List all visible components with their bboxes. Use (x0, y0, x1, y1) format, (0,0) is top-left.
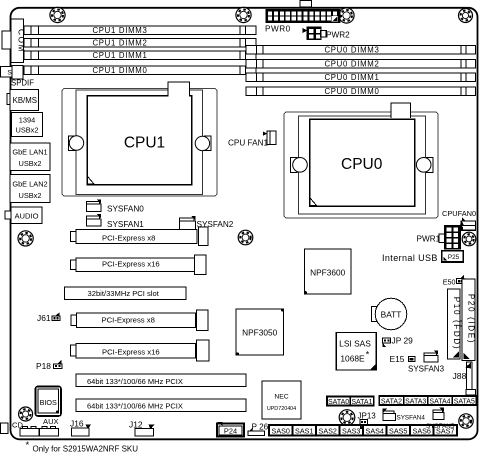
svg-text:USBx2: USBx2 (18, 191, 41, 200)
fan connector SYSFAN4 (383, 409, 396, 421)
header J16 (72, 424, 92, 436)
svg-text:Internal USB: Internal USB (382, 253, 438, 263)
svg-text:NPF3050: NPF3050 (242, 327, 277, 337)
COM port connector (2, 19, 26, 63)
svg-text:J61: J61 (37, 313, 51, 323)
PCI-Express x8 slot (top) (71, 227, 209, 246)
chip LSI SAS 1068E (336, 333, 376, 371)
svg-text:J88: J88 (453, 371, 467, 381)
SATA connectors SATA2-SATA5 (379, 396, 476, 405)
svg-text:E50: E50 (443, 277, 456, 286)
left edge tab near CD (1, 423, 9, 434)
power connector PWR2 (302, 27, 326, 39)
svg-text:AUDIO: AUDIO (14, 212, 38, 221)
fan connector SYSFAN2 (180, 216, 196, 230)
DIMM slot CPU0 DIMM1 (246, 73, 476, 82)
CPU socket CPU0 (284, 103, 438, 218)
fan connector SYSFAN1 (87, 214, 102, 226)
svg-text:CPU0 DIMM3: CPU0 DIMM3 (324, 46, 379, 55)
svg-text:PWR1: PWR1 (417, 235, 441, 244)
fan connector CPUFAN0 (458, 217, 475, 231)
chip NEC UPD720404 (262, 381, 301, 419)
svg-text:SATA4: SATA4 (429, 398, 450, 405)
svg-text:GbE LAN2: GbE LAN2 (12, 180, 47, 189)
DIMM slot CPU0 DIMM3 (246, 46, 476, 55)
connector P20 (IDE) (462, 279, 476, 361)
svg-text:S: S (7, 70, 12, 77)
svg-text:PCI-Express x8: PCI-Express x8 (102, 233, 155, 242)
svg-text:64bit 133*/100/66 MHz PCIX: 64bit 133*/100/66 MHz PCIX (87, 377, 183, 386)
svg-text:CPU0 DIMM2: CPU0 DIMM2 (324, 60, 379, 69)
svg-text:Only for S2915WA2NRF SKU: Only for S2915WA2NRF SKU (33, 445, 139, 454)
svg-text:*: * (26, 440, 30, 451)
svg-text:SYSFAN0: SYSFAN0 (107, 205, 144, 214)
32bit/33MHz PCI slot (65, 287, 187, 300)
mounting hole top-left (50, 7, 65, 22)
mounting hole top-right (459, 9, 473, 23)
svg-text:SPDIF: SPDIF (11, 79, 34, 88)
svg-text:P20 (IDE): P20 (IDE) (467, 294, 476, 344)
svg-text:NPF3600: NPF3600 (310, 267, 345, 277)
svg-text:1394: 1394 (19, 116, 35, 125)
DIMM slot CPU0 DIMM0 (246, 87, 476, 96)
DIMM slot CPU1 DIMM1 (24, 51, 256, 60)
svg-text:CPU0: CPU0 (341, 156, 383, 173)
1394 / USBx2 connector (12, 113, 43, 137)
svg-text:PCI-Express x8: PCI-Express x8 (102, 316, 155, 325)
64bit PCIX slot (upper) (76, 374, 246, 386)
BIOS chip (36, 387, 62, 417)
svg-text:SAS4: SAS4 (366, 426, 384, 435)
fan connector SYSFAN0 (87, 199, 102, 211)
mounting hole bottom-center (339, 410, 355, 426)
GbE LAN1 / USBx2 connector (10, 143, 50, 171)
jumper JP29 (383, 338, 391, 347)
chip NPF3600 (304, 249, 351, 294)
svg-text:P18: P18 (36, 361, 51, 371)
PCI-Express x8 slot (lower) (71, 310, 208, 331)
jumper J61 (52, 312, 60, 321)
svg-text:E15: E15 (390, 354, 405, 364)
connector J88 (465, 362, 476, 395)
svg-text:CPU1 DIMM2: CPU1 DIMM2 (92, 39, 147, 48)
svg-text:CPUFAN0: CPUFAN0 (442, 209, 476, 218)
svg-text:SATA3: SATA3 (405, 398, 426, 405)
AUDIO connector (5, 207, 42, 224)
svg-text:JP 29: JP 29 (392, 336, 414, 346)
mounting hole bottom-right (459, 414, 473, 428)
jumper E15 (408, 357, 415, 362)
svg-text:BIOS: BIOS (40, 398, 57, 407)
header J12 (135, 425, 155, 436)
svg-text:SYSFAN4: SYSFAN4 (397, 414, 426, 421)
fan connector SYSFAN3 (424, 351, 438, 363)
SATA connectors SATA0-SATA1 (327, 397, 374, 406)
svg-text:CPU0 DIMM0: CPU0 DIMM0 (324, 87, 379, 96)
jumper E50 (457, 275, 465, 284)
svg-text:CPU1 DIMM1: CPU1 DIMM1 (92, 51, 147, 60)
svg-text:PWR2: PWR2 (326, 30, 350, 39)
svg-text:CPU1 DIMM0: CPU1 DIMM0 (92, 66, 147, 75)
svg-text:SAS2: SAS2 (319, 426, 337, 435)
svg-text:1068E: 1068E (340, 354, 365, 364)
svg-text:J16: J16 (70, 419, 84, 429)
CD connector (20, 427, 39, 436)
svg-text:CPU1 DIMM3: CPU1 DIMM3 (92, 26, 147, 35)
chip NPF3050 (236, 309, 284, 356)
header P25 (442, 251, 464, 262)
svg-text:SATA1: SATA1 (351, 399, 372, 406)
svg-text:PCI-Express x16: PCI-Express x16 (102, 259, 160, 268)
PCI-Express x16 slot (lower) (71, 340, 210, 361)
PCI-Express x16 slot (upper) (71, 255, 207, 275)
mounting hole right-middle (462, 232, 476, 246)
svg-text:SYSFAN1: SYSFAN1 (107, 220, 144, 229)
svg-text:KB/MS: KB/MS (13, 96, 37, 105)
CPU socket CPU1 (62, 82, 217, 196)
svg-text:USBx2: USBx2 (18, 159, 41, 168)
mounting hole top-mid-left (236, 7, 251, 22)
svg-text:LSI SAS: LSI SAS (339, 339, 371, 349)
svg-text:CPU1: CPU1 (124, 135, 165, 152)
svg-text:CPU FAN1: CPU FAN1 (228, 139, 268, 148)
svg-text:P24: P24 (224, 427, 237, 436)
svg-text:SATA2: SATA2 (381, 398, 402, 405)
svg-text:GbE LAN1: GbE LAN1 (12, 148, 47, 157)
svg-text:SATA5: SATA5 (454, 398, 475, 405)
SAS connectors SAS0-SAS7 (269, 425, 457, 436)
DIMM slot CPU1 DIMM2 (24, 39, 256, 48)
DIMM slot CPU1 DIMM0 (24, 66, 256, 75)
svg-text:64bit 133*/100/66 MHz PCIX: 64bit 133*/100/66 MHz PCIX (87, 402, 183, 411)
mounting hole center (238, 230, 253, 245)
svg-text:AUX: AUX (43, 417, 59, 426)
svg-text:SYSFAN5: SYSFAN5 (426, 423, 455, 430)
jumper JP13 (360, 420, 368, 429)
svg-text:BATT: BATT (381, 309, 402, 319)
power connector PWR0 (24-pin) (266, 10, 340, 23)
svg-text:PCI-Express x16: PCI-Express x16 (102, 347, 160, 356)
connector P26 (248, 428, 265, 435)
power connector PWR1 (8-pin) (439, 222, 464, 249)
KB/MS connector (7, 89, 38, 110)
jumper P18 (54, 360, 62, 368)
svg-text:SAS5: SAS5 (389, 426, 407, 435)
svg-text:SAS3: SAS3 (342, 426, 360, 435)
mounting hole top-mid-right (339, 8, 354, 23)
svg-text:NEC: NEC (274, 394, 288, 401)
svg-text:SYSFAN3: SYSFAN3 (408, 365, 445, 374)
DIMM slot CPU0 DIMM2 (246, 60, 476, 69)
mounting hole left-middle (18, 231, 33, 246)
svg-text:PWR0: PWR0 (265, 25, 291, 34)
mounting hole bottom-left (19, 407, 33, 421)
svg-text:32bit/33MHz PCI slot: 32bit/33MHz PCI slot (88, 289, 160, 298)
svg-text:SAS0: SAS0 (272, 426, 290, 435)
svg-text:J12: J12 (129, 419, 143, 429)
64bit PCIX slot (lower) (76, 399, 246, 411)
svg-text:P25: P25 (448, 254, 460, 261)
svg-text:USBx2: USBx2 (15, 126, 38, 135)
svg-text:SAS1: SAS1 (295, 426, 313, 435)
AUX connector (40, 427, 59, 436)
svg-text:CPU0 DIMM1: CPU0 DIMM1 (324, 73, 379, 82)
DIMM slot CPU1 DIMM3 (24, 26, 256, 35)
svg-text:SATA0: SATA0 (328, 399, 349, 406)
svg-text:UPD720404: UPD720404 (267, 406, 296, 412)
fan connector CPU FAN1 (263, 131, 276, 145)
connector P10 (FDD) (447, 289, 462, 359)
fan connector SYSFAN5 (433, 408, 444, 420)
SPDIF connector (1, 66, 24, 80)
GbE LAN2 / USBx2 connector (10, 175, 50, 203)
svg-text:*: * (366, 350, 370, 360)
top edge tab connector (300, 1, 312, 8)
svg-text:P 26: P 26 (252, 423, 269, 432)
battery BATT (372, 298, 407, 330)
connector P24 (217, 422, 244, 436)
